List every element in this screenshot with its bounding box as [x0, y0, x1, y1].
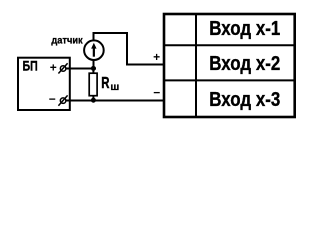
sensor arrow (points up) — [91, 43, 96, 57]
wire: node A to Rш top — [92, 68, 94, 73]
node B (junction dot: Rш bottom on minus wire) — [91, 98, 96, 103]
wire: БП plus terminal to node A — [66, 68, 96, 70]
sensor current source circle — [84, 40, 104, 60]
svg-text:−: − — [153, 86, 160, 100]
wire: БП minus terminal to table minus input — [66, 100, 164, 102]
svg-text:R: R — [101, 75, 110, 92]
terminal ⊘ (БП plus) — [58, 63, 67, 73]
svg-text:датчик: датчик — [51, 36, 83, 47]
table column divider — [195, 13, 197, 116]
svg-text:ш: ш — [110, 82, 119, 93]
svg-text:−: − — [49, 92, 56, 106]
wire: sensor bottom to node A — [93, 61, 95, 69]
table row separator 1 — [163, 44, 294, 46]
svg-text:+: + — [153, 50, 160, 64]
svg-text:Вход х-2: Вход х-2 — [209, 53, 280, 75]
node A (junction dot: sensor bottom / Rш top / БП plus) — [91, 66, 96, 71]
wire: sensor top up, right, down to table plus input — [94, 33, 165, 65]
svg-text:+: + — [50, 60, 57, 74]
terminal block table outer border — [164, 14, 295, 117]
wire: Rш bottom to node B — [92, 96, 94, 101]
svg-text:Вход х-3: Вход х-3 — [209, 89, 280, 111]
power supply box БП — [18, 58, 70, 110]
svg-text:Вход х-1: Вход х-1 — [209, 18, 280, 40]
table row separator 2 — [163, 79, 294, 81]
terminal ⊘ (БП minus) — [58, 95, 67, 105]
svg-text:БП: БП — [23, 58, 38, 74]
resistor Rш body — [89, 73, 97, 96]
